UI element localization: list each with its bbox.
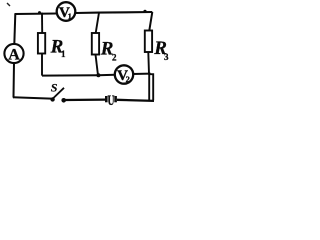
battery plate left	[105, 96, 108, 102]
wire switch to battery	[66, 98, 106, 101]
wire right drop to R3	[149, 12, 152, 31]
node T-junction right	[148, 72, 151, 75]
ammeter A	[4, 44, 23, 64]
resistor R2 top lead	[96, 13, 99, 33]
resistor R1 bottom lead	[41, 54, 43, 76]
label R2	[100, 39, 117, 63]
wire top-right segment (V1 to corner)	[76, 12, 153, 13]
svg-text:2: 2	[126, 74, 130, 84]
switch lever	[52, 88, 64, 100]
wire middle (R1 bottom to V2)	[42, 74, 115, 77]
switch pivot contact	[50, 97, 54, 101]
svg-text:1: 1	[68, 11, 72, 21]
wire left vertical upper (corner to ammeter)	[14, 14, 15, 44]
svg-text:2: 2	[112, 53, 117, 63]
svg-text:1: 1	[61, 49, 66, 59]
voltmeter U1 V1	[57, 2, 76, 21]
resistor R3	[145, 31, 152, 53]
speck top-left	[7, 3, 10, 6]
battery plate right	[114, 96, 117, 102]
wire bottom-left (corner to switch)	[13, 97, 51, 98]
wire right vertical inner (junction down to bottom)	[148, 74, 150, 101]
wire right vertical outer	[150, 74, 153, 100]
wire left vertical lower (ammeter to bottom corner)	[13, 63, 16, 98]
resistor R1 top lead	[41, 13, 43, 33]
wire battery to bottom-right corner	[117, 100, 154, 101]
label S	[51, 81, 58, 95]
wire middle (V2 to R3 junction)	[133, 73, 150, 75]
resistor R2	[92, 33, 99, 55]
svg-text:3: 3	[164, 52, 169, 62]
resistor R3 bottom lead	[147, 52, 150, 74]
voltmeter U2 V2	[115, 65, 133, 84]
label U battery	[108, 93, 115, 109]
svg-text:S: S	[51, 81, 58, 95]
label R3	[153, 38, 169, 62]
resistor R2 bottom lead	[96, 55, 99, 76]
svg-text:U: U	[108, 93, 115, 109]
switch right contact	[61, 98, 66, 103]
label R1	[50, 37, 66, 59]
node near top-right	[143, 10, 146, 13]
node R1 top junction	[38, 11, 41, 14]
svg-text:A: A	[8, 47, 20, 64]
resistor R1	[38, 33, 45, 54]
wire top-left segment (corner to V1)	[16, 14, 57, 16]
node R2 bottom junction	[96, 73, 100, 77]
